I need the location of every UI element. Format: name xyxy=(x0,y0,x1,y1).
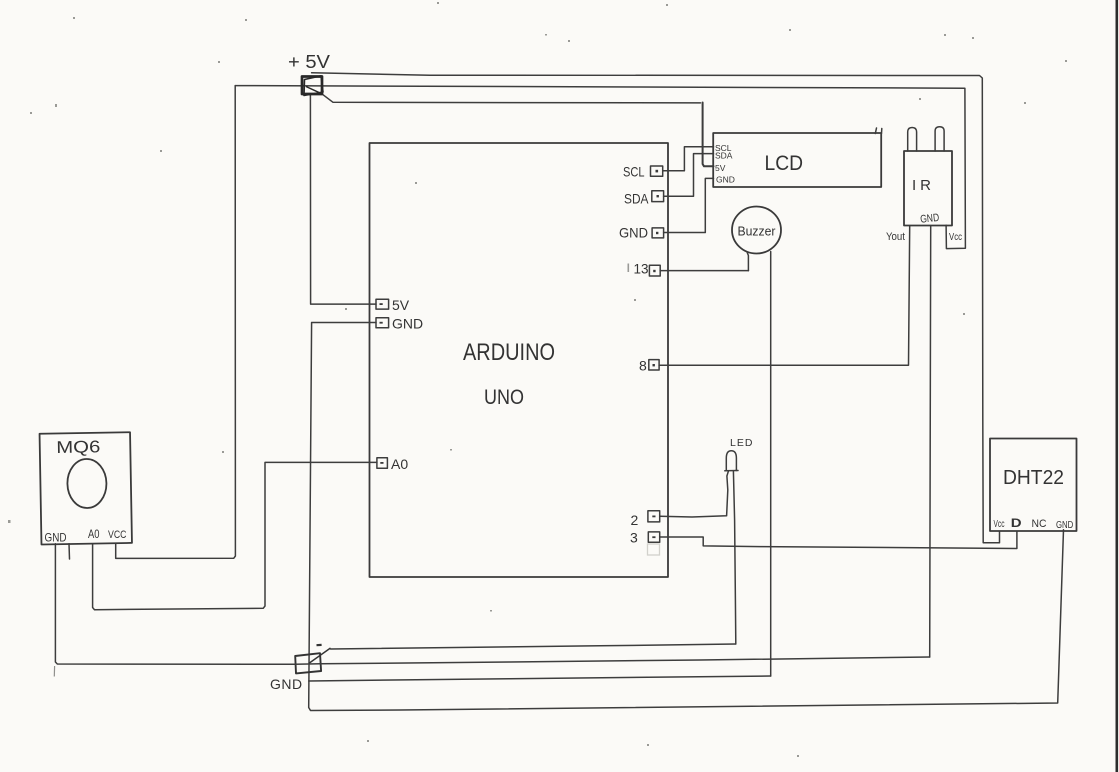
svg-text:SCL: SCL xyxy=(623,164,645,180)
svg-text:D: D xyxy=(1011,516,1022,530)
svg-text:GND: GND xyxy=(619,225,648,241)
svg-text:2: 2 xyxy=(631,512,639,528)
svg-text:LCD: LCD xyxy=(765,152,804,175)
svg-text:GND: GND xyxy=(392,316,423,332)
svg-text:A0: A0 xyxy=(391,456,408,472)
svg-text:A0: A0 xyxy=(88,529,100,541)
svg-text:Vcc: Vcc xyxy=(949,231,962,243)
svg-text:SDA: SDA xyxy=(715,151,733,161)
svg-text:LED: LED xyxy=(730,437,753,449)
svg-text:GND: GND xyxy=(45,531,67,545)
svg-text:8: 8 xyxy=(639,358,647,374)
svg-text:UNO: UNO xyxy=(484,386,524,409)
svg-text:NC: NC xyxy=(1032,518,1047,530)
svg-text:VCC: VCC xyxy=(108,529,127,541)
svg-text:13: 13 xyxy=(634,261,649,277)
svg-text:GND: GND xyxy=(920,212,940,226)
svg-text:SDA: SDA xyxy=(624,191,649,207)
svg-text:DHT22: DHT22 xyxy=(1003,467,1064,489)
svg-text:GND: GND xyxy=(1056,520,1073,531)
svg-text:MQ6: MQ6 xyxy=(56,437,100,457)
svg-text:5V: 5V xyxy=(392,297,410,313)
svg-text:IR: IR xyxy=(912,177,935,194)
svg-text:Buzzer: Buzzer xyxy=(738,224,777,239)
svg-text:+ 5V: + 5V xyxy=(288,52,330,72)
svg-text:3: 3 xyxy=(630,530,638,546)
svg-text:GND: GND xyxy=(270,676,303,692)
svg-text:ARDUINO: ARDUINO xyxy=(463,339,555,366)
svg-text:Yout: Yout xyxy=(886,231,905,243)
svg-text:5V: 5V xyxy=(715,163,726,173)
svg-text:GND: GND xyxy=(716,175,735,185)
svg-text:Vcc: Vcc xyxy=(994,519,1005,530)
